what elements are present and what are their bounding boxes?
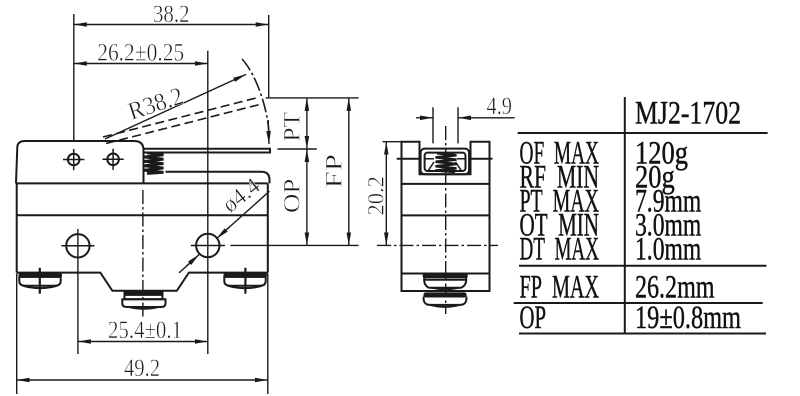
PT dimension line: [306, 98, 308, 149]
plunger (left view): [125, 292, 163, 295]
body left edge: [16, 183, 18, 272]
extension line pivot (38.2 / 26.2): [73, 14, 75, 140]
leader R38.2: [105, 74, 246, 139]
svg-text:OP: OP: [279, 179, 305, 213]
dim line 49.2: [17, 379, 268, 381]
svg-text:25.4±0.1: 25.4±0.1: [108, 317, 182, 344]
extension line body left (49.2): [16, 274, 18, 395]
lever (solid, operating position): [144, 149, 271, 153]
leader ø4.4 through right mounting hole: [179, 191, 270, 273]
terminal barrel 2: [424, 293, 467, 306]
lever free position (dashed) upper edge: [103, 98, 258, 138]
svg-text:MJ2-1702: MJ2-1702: [635, 95, 741, 131]
bottom reference line (hole centerline extended): [230, 244, 358, 246]
separator above FP row: [519, 265, 766, 267]
side view body outline: [402, 142, 490, 291]
4.9 dim arrows: [416, 117, 433, 119]
svg-text:38.2: 38.2: [153, 1, 190, 28]
svg-text:PT: PT: [279, 112, 305, 142]
svg-text:26.2±0.25: 26.2±0.25: [97, 39, 184, 66]
header underline: [518, 132, 768, 134]
svg-text:OP: OP: [520, 299, 547, 335]
svg-text:R38.2: R38.2: [125, 83, 187, 126]
extension line lever tip: [268, 15, 270, 98]
free position reference line (FP top): [266, 97, 359, 99]
extension line right mounting hole: [207, 51, 209, 354]
mounting hole left: [66, 234, 89, 257]
table text: [520, 95, 742, 336]
side seam line 4: [402, 273, 490, 275]
separator above OP row: [514, 302, 763, 304]
dim line 26.2±0.25: [74, 63, 208, 65]
side center line (dash-dot vertical): [445, 126, 447, 314]
pivot hole right: [107, 154, 119, 166]
body bottom with plunger recess: [17, 273, 268, 291]
centerline of plunger (dash-dot): [142, 190, 144, 318]
svg-text:20.2: 20.2: [362, 176, 388, 215]
svg-text:DT MAX: DT MAX: [520, 231, 600, 267]
body seam line 2: [17, 214, 268, 216]
pivot hole left: [68, 154, 80, 166]
terminal left: [19, 268, 61, 294]
spring seat lines: [428, 162, 462, 171]
dim line 38.2: [74, 24, 269, 26]
FP dimension line: [348, 98, 350, 246]
plunger housing box (outer): [421, 149, 470, 175]
cover plate right of spring: [166, 172, 270, 184]
spring (left view): [144, 153, 163, 174]
table vertical divider: [624, 97, 626, 334]
terminal right: [224, 268, 266, 294]
operating position reference line (PT bottom): [277, 148, 316, 150]
plunger housing box (inner): [425, 153, 466, 171]
spring (side view): [436, 153, 457, 172]
svg-text:ø4.4: ø4.4: [217, 172, 265, 217]
terminal barrel 1: [424, 274, 467, 289]
table bottom line: [519, 333, 766, 335]
OP dimension line: [306, 149, 308, 245]
lever free position (dashed) lower edge: [106, 104, 262, 144]
inner seam segments: [425, 158, 466, 160]
svg-text:4.9: 4.9: [487, 93, 513, 120]
extension line left mounting hole (25.4): [77, 229, 79, 354]
4.9 extension lines: [433, 107, 458, 143]
side seam line 2: [402, 183, 490, 185]
svg-text:FP: FP: [320, 154, 346, 188]
20.2 top extension: [383, 141, 402, 143]
20.2 dimension line: [385, 142, 387, 246]
svg-text:49.2: 49.2: [124, 355, 160, 382]
switch body top bracket: [16, 141, 144, 183]
svg-text:19±0.8mm: 19±0.8mm: [635, 299, 741, 335]
side seam line 3: [402, 214, 490, 216]
side seam line poking out: [397, 158, 493, 160]
lever sweep arc (dash-dot) with arrow: [242, 59, 269, 132]
extension line body right (49.2): [267, 274, 269, 395]
body seam line 1: [16, 182, 268, 184]
body right edge: [267, 183, 269, 272]
dim line 25.4±0.1: [78, 341, 208, 343]
mounting hole centerline (dash-dot horizontal): [377, 244, 498, 246]
mounting hole right: [196, 234, 219, 257]
svg-text:1.0mm: 1.0mm: [635, 231, 701, 267]
